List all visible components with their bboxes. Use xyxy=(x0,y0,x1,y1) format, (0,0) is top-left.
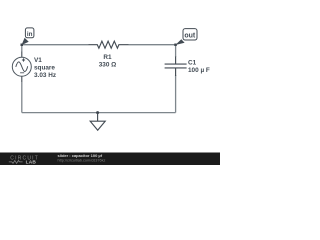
ground xyxy=(90,113,105,131)
logo zigzag xyxy=(9,160,23,163)
wire top right segment xyxy=(129,44,176,46)
svg-text:100 µ F: 100 µ F xyxy=(188,67,210,74)
source V1 xyxy=(12,52,31,83)
svg-text:square: square xyxy=(34,64,55,71)
node in flag xyxy=(21,28,34,46)
wire top left segment xyxy=(22,44,89,46)
wire right vertical lower xyxy=(175,75,177,113)
svg-text:C1: C1 xyxy=(188,60,197,67)
svg-text:http://circuitlab.com/c6376kz: http://circuitlab.com/c6376kz xyxy=(58,159,106,163)
svg-text:LAB: LAB xyxy=(26,160,37,165)
svg-text:out: out xyxy=(184,33,196,40)
wire left vertical lower xyxy=(21,82,23,113)
wire right vertical upper xyxy=(175,45,177,57)
wire bottom xyxy=(22,112,176,114)
svg-text:slider : capacitor 100 µf: slider : capacitor 100 µf xyxy=(58,153,103,158)
junction dot on bottom wire xyxy=(96,111,99,114)
node out flag xyxy=(174,29,197,46)
svg-text:V1: V1 xyxy=(34,57,42,64)
svg-text:R1: R1 xyxy=(103,54,112,61)
watermark bar xyxy=(0,153,220,166)
svg-text:3.03 Hz: 3.03 Hz xyxy=(34,72,56,79)
capacitor C1 xyxy=(165,57,187,77)
svg-text:in: in xyxy=(27,31,33,38)
resistor R1 xyxy=(89,41,129,48)
wire left vertical upper xyxy=(21,45,23,52)
svg-text:330 Ω: 330 Ω xyxy=(99,62,117,69)
